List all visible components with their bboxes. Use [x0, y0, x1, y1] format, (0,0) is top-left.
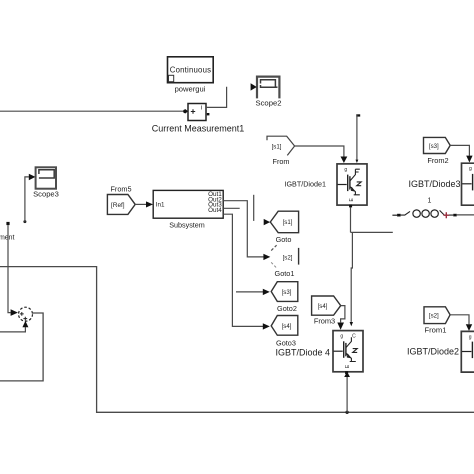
- dangling wire from Out3: [223, 207, 240, 209]
- svg-text:[Ref]: [Ref]: [111, 202, 125, 209]
- svg-text:[s3]: [s3]: [282, 289, 292, 296]
- svg-text:IGBT/Diode 4: IGBT/Diode 4: [275, 347, 330, 357]
- svg-text:g: g: [469, 334, 472, 340]
- svg-text:[s1]: [s1]: [283, 219, 293, 226]
- svg-text:From2: From2: [427, 156, 448, 165]
- svg-text:E: E: [349, 197, 355, 201]
- svg-text:Goto3: Goto3: [276, 338, 296, 347]
- svg-text:From1: From1: [425, 325, 447, 334]
- IGBT/Diode1 block: [284, 164, 367, 208]
- wire horizontal to vertical bus: [0, 267, 474, 413]
- output port of clipped block: [6, 222, 18, 316]
- scope Scope3: [29, 167, 59, 198]
- svg-text:C: C: [352, 334, 356, 340]
- top vertical wire into IGBT/Diode1 collector: [356, 114, 361, 163]
- svg-text:IGBT/Diode1: IGBT/Diode1: [284, 179, 326, 188]
- goto tag Goto2 [s3]: [271, 282, 298, 313]
- junction on bottom bus: [345, 411, 348, 414]
- IGBT/Diode2 block (clipped at right edge): [407, 331, 474, 372]
- goto tag Goto [s1]: [264, 211, 299, 244]
- powergui block: [168, 57, 214, 94]
- wire From2 to IGBT/Diode3 gate: [450, 145, 472, 162]
- svg-text:g: g: [469, 166, 472, 172]
- svg-text:[s4]: [s4]: [318, 303, 328, 310]
- from tag From5: [107, 184, 135, 214]
- svg-text:Out4: Out4: [208, 207, 222, 214]
- wire into Current Measurement1: [0, 109, 188, 114]
- svg-text:[s1]: [s1]: [272, 144, 282, 151]
- svg-text:Scope2: Scope2: [255, 98, 281, 107]
- svg-text:In1: In1: [156, 201, 165, 208]
- svg-text:From5: From5: [110, 184, 131, 193]
- from tag From3 [s4]: [312, 296, 341, 325]
- svg-text:[s3]: [s3]: [429, 143, 439, 150]
- svg-text:i: i: [201, 104, 202, 111]
- wire From to IGBT/Diode1 gate: [295, 146, 348, 163]
- from tag From2 [s3]: [424, 137, 451, 164]
- from tag From [s1] (partially drawn): [267, 136, 295, 166]
- wire from Current Measurement1 output: [206, 87, 227, 108]
- svg-text:From3: From3: [314, 316, 335, 325]
- svg-text:E: E: [345, 364, 351, 368]
- wire From1 to IGBT/Diode2 gate: [450, 315, 472, 331]
- wire into Scope3: [23, 177, 29, 223]
- from tag From1 [s2]: [424, 307, 450, 335]
- svg-text:IGBT/Diode2: IGBT/Diode2: [407, 346, 459, 356]
- wire sum output loop: [0, 313, 43, 381]
- svg-text:[s4]: [s4]: [282, 323, 292, 330]
- dangling wire from Out1: [253, 195, 255, 221]
- wire junction up into IGBT/Diode 4 bottom: [344, 372, 350, 413]
- IGBT/Diode 4 block: [275, 331, 363, 375]
- svg-text:Scope3: Scope3: [33, 189, 59, 198]
- svg-text:Goto2: Goto2: [277, 304, 297, 313]
- current measurement block Current Measurement1: [152, 104, 245, 134]
- svg-text:1: 1: [428, 197, 432, 204]
- wire into Goto2: [236, 289, 270, 295]
- inductor with polarity: [392, 210, 474, 218]
- svg-text:Current Measurement1: Current Measurement1: [152, 123, 245, 133]
- svg-text:IGBT/Diode3: IGBT/Diode3: [408, 179, 460, 189]
- goto tag Goto3 [s4]: [271, 316, 298, 348]
- svg-text:Goto: Goto: [276, 235, 292, 244]
- svg-text:g: g: [344, 167, 347, 173]
- svg-text:Goto1: Goto1: [275, 269, 295, 278]
- wire IGBT/Diode1 emitter down and right stub: [350, 207, 393, 326]
- svg-text:g: g: [340, 334, 343, 340]
- svg-text:[s2]: [s2]: [283, 255, 293, 262]
- svg-text:ment: ment: [0, 235, 15, 242]
- svg-text:powergui: powergui: [175, 84, 206, 93]
- subsystem block Subsystem: [153, 190, 223, 229]
- svg-text:Subsystem: Subsystem: [169, 220, 205, 229]
- svg-text:Continuous: Continuous: [170, 65, 211, 74]
- svg-text:From: From: [272, 157, 289, 166]
- goto tag Goto1 [s2] (partially drawn): [271, 245, 298, 278]
- wire Out2 to Goto1: [223, 201, 270, 260]
- wire From3 to IGBT/Diode 4 gate: [337, 306, 345, 330]
- wire From5 to Subsystem: [135, 201, 153, 207]
- svg-text:[s2]: [s2]: [429, 313, 439, 320]
- scope Scope2: [251, 77, 282, 108]
- IGBT/Diode3 block (clipped at right edge): [408, 163, 474, 205]
- wire Out4 to Goto3: [223, 214, 270, 329]
- wire into sum bottom: [0, 321, 28, 332]
- sum block Add (dashed circle): [19, 307, 33, 321]
